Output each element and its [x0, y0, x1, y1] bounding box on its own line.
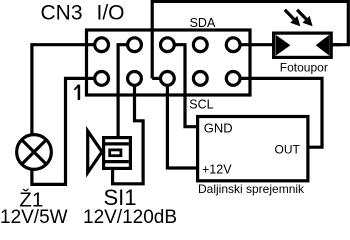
svg-text:SCL: SCL [189, 97, 213, 111]
svg-text:+12V: +12V [202, 163, 232, 177]
svg-text:OUT: OUT [275, 143, 301, 157]
svg-text:Fotoupor: Fotoupor [280, 60, 328, 74]
svg-text:SI1: SI1 [104, 185, 137, 210]
svg-text:GND: GND [204, 120, 233, 135]
svg-text:12V/5W: 12V/5W [0, 207, 68, 225]
svg-text:12V/120dB: 12V/120dB [83, 207, 177, 225]
svg-text:Daljinski sprejemnik: Daljinski sprejemnik [198, 182, 305, 196]
svg-text:SDA: SDA [190, 16, 216, 30]
svg-text:CN3: CN3 [41, 2, 83, 25]
svg-text:I/O: I/O [97, 2, 125, 25]
